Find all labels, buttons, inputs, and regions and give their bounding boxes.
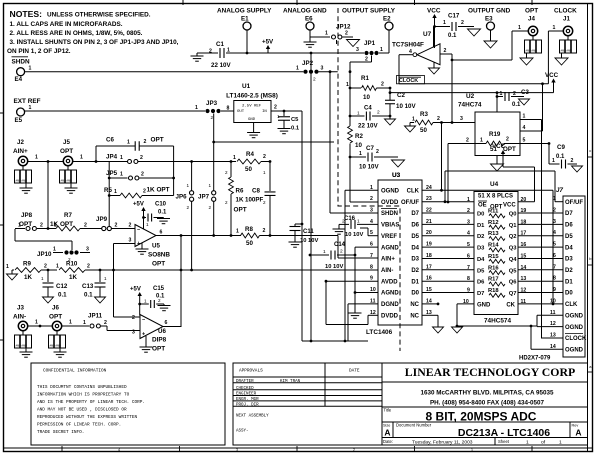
svg-text:4: 4	[467, 231, 470, 237]
svg-text:JP7: JP7	[198, 194, 210, 201]
svg-text:2: 2	[87, 264, 90, 270]
svg-text:OPT: OPT	[152, 346, 165, 353]
wire U4 Q2 to J7	[518, 235, 563, 237]
svg-text:U4: U4	[490, 181, 499, 188]
svg-text:D1: D1	[565, 279, 573, 285]
J6 shield	[49, 331, 66, 352]
svg-text:2: 2	[140, 155, 143, 161]
wire AIN+ riser	[338, 236, 378, 259]
svg-text:+5V: +5V	[130, 287, 141, 293]
svg-text:1: 1	[114, 189, 117, 195]
svg-text:R10: R10	[66, 261, 78, 268]
svg-text:DIP8: DIP8	[152, 337, 167, 344]
wire JP3 pin2 riser	[213, 114, 215, 191]
svg-text:JP4: JP4	[106, 154, 118, 161]
svg-text:C4: C4	[364, 106, 372, 112]
resistor R5	[104, 187, 174, 198]
svg-text:D0: D0	[565, 291, 573, 297]
svg-text:0.1: 0.1	[291, 126, 300, 132]
svg-text:2: 2	[513, 91, 516, 97]
svg-text:Q4: Q4	[509, 257, 518, 263]
wire U5 output	[156, 235, 241, 237]
svg-text:2: 2	[209, 49, 212, 55]
svg-text:2: 2	[144, 139, 147, 145]
svg-text:D3: D3	[477, 246, 485, 252]
ground C11	[289, 242, 302, 247]
wire vref rail riser	[301, 111, 303, 341]
capacitor C15	[140, 286, 165, 308]
wire U4 Q0 to J7	[518, 212, 563, 214]
svg-text:R11: R11	[488, 209, 499, 215]
wire J1 to U2	[548, 31, 563, 84]
svg-text:DGND: DGND	[381, 302, 399, 308]
svg-text:1: 1	[120, 172, 123, 178]
svg-text:R16: R16	[488, 265, 499, 271]
ground AGND	[349, 313, 362, 318]
svg-text:+5V: +5V	[262, 39, 274, 46]
svg-text:2: 2	[104, 320, 107, 326]
svg-text:D5: D5	[477, 268, 485, 274]
ground U7	[429, 62, 440, 74]
svg-text:CLOCK: CLOCK	[565, 336, 587, 342]
regulator U1 LT1460	[226, 83, 278, 132]
resistor R7	[50, 212, 102, 231]
svg-text:2: 2	[40, 223, 43, 229]
svg-text:8 BIT, 20MSPS ADC: 8 BIT, 20MSPS ADC	[426, 410, 537, 424]
svg-text:2: 2	[263, 154, 266, 160]
svg-text:10 10V: 10 10V	[359, 164, 379, 171]
svg-text:1: 1	[296, 66, 299, 72]
junction C3	[496, 95, 499, 98]
op-amp U5	[129, 223, 171, 268]
svg-text:KIM TRAN: KIM TRAN	[280, 380, 301, 384]
svg-text:2: 2	[263, 200, 266, 205]
ground R3	[405, 126, 416, 132]
svg-text:REPRODUCED WITHOUT THE EXPRESS: REPRODUCED WITHOUT THE EXPRESS WRITTEN	[37, 415, 137, 420]
svg-text:2.5V REF: 2.5V REF	[242, 105, 262, 109]
svg-text:1: 1	[480, 138, 483, 144]
svg-text:R5: R5	[104, 187, 112, 194]
capacitor C11	[290, 223, 319, 244]
wire CLK row	[422, 190, 553, 303]
svg-text:IN: IN	[262, 110, 267, 114]
wire VREF row	[212, 141, 334, 144]
svg-text:9: 9	[467, 288, 470, 294]
svg-text:U7: U7	[423, 31, 432, 38]
wire R1 C2 riser	[389, 87, 392, 119]
svg-text:2: 2	[553, 208, 556, 214]
svg-text:1: 1	[195, 105, 198, 111]
wire U2 pin1	[520, 114, 542, 339]
junction R6 top	[230, 160, 233, 163]
ground NC	[433, 327, 444, 333]
jumper JP8	[15, 212, 56, 231]
svg-text:2: 2	[571, 158, 574, 164]
capacitor C8	[245, 162, 276, 236]
svg-text:PERMISSION OF LINEAR TECH. COR: PERMISSION OF LINEAR TECH. CORP.	[37, 423, 121, 428]
wire input row y326	[28, 325, 89, 327]
svg-text:AMP AMP: AMP AMP	[16, 345, 28, 348]
svg-text:C16: C16	[344, 216, 356, 222]
svg-text:AIN+: AIN+	[381, 257, 395, 263]
svg-text:D1: D1	[477, 223, 485, 229]
junction rail x311	[310, 52, 313, 55]
wire right riser x173	[173, 146, 175, 196]
junction JP8 R7	[47, 227, 50, 230]
svg-text:1: 1	[53, 247, 56, 253]
svg-text:OGND: OGND	[565, 314, 584, 320]
svg-text:2: 2	[84, 223, 87, 229]
connector J1 CLOCK	[553, 8, 578, 36]
junction E1 rail	[246, 52, 249, 55]
svg-text:1: 1	[553, 25, 556, 31]
wire AGND riser	[354, 255, 356, 313]
svg-text:JP11: JP11	[88, 313, 103, 320]
svg-text:OUT: OUT	[237, 110, 245, 114]
svg-text:D6: D6	[477, 280, 485, 286]
svg-text:CLK: CLK	[565, 302, 578, 308]
wire U4 Q5 to J7	[518, 269, 563, 271]
svg-text:3: 3	[467, 219, 470, 225]
svg-text:1: 1	[518, 25, 521, 31]
svg-text:10 10V: 10 10V	[345, 232, 364, 238]
resistor R6	[225, 162, 247, 236]
wire U2 top stub	[496, 93, 498, 112]
svg-text:6: 6	[553, 253, 556, 259]
svg-text:7: 7	[553, 264, 556, 270]
wire U2 pin4	[520, 125, 543, 131]
svg-text:AMP AMP: AMP AMP	[526, 50, 538, 53]
svg-text:U5: U5	[152, 243, 160, 250]
resistor R1	[346, 75, 390, 101]
svg-text:OPT: OPT	[234, 207, 247, 214]
svg-text:ASSY-: ASSY-	[236, 430, 249, 434]
svg-text:3: 3	[86, 247, 89, 253]
svg-text:R6: R6	[236, 188, 244, 195]
svg-text:J2: J2	[17, 139, 24, 146]
junction OGND 531	[530, 325, 533, 328]
ground C10	[157, 218, 170, 224]
svg-text:VBIAS: VBIAS	[381, 223, 399, 229]
svg-text:1: 1	[523, 114, 526, 120]
svg-text:CLOCK: CLOCK	[399, 78, 418, 84]
svg-text:C14: C14	[334, 242, 346, 248]
svg-text:DVDD: DVDD	[381, 314, 399, 320]
jumper JP5	[106, 170, 174, 180]
label CLOCK net	[397, 76, 425, 85]
svg-text:2: 2	[466, 138, 469, 144]
svg-text:1: 1	[6, 264, 9, 270]
svg-text:R13: R13	[488, 231, 499, 237]
wire U7 in riser	[451, 54, 453, 123]
capacitor C9	[549, 144, 577, 169]
svg-text:AIN+: AIN+	[13, 148, 28, 155]
J3 shield	[15, 331, 32, 352]
svg-text:8: 8	[553, 276, 556, 282]
connector J2 AIN+	[13, 139, 38, 166]
capacitor C3	[497, 89, 529, 108]
svg-text:1: 1	[187, 183, 190, 188]
svg-text:DRAFTER: DRAFTER	[236, 380, 254, 384]
svg-text:A: A	[575, 428, 581, 438]
svg-text:2: 2	[444, 48, 447, 54]
svg-text:3: 3	[356, 47, 359, 53]
svg-text:0.1: 0.1	[512, 102, 521, 108]
capacitor C6	[96, 137, 174, 151]
svg-text:OVDD: OVDD	[381, 200, 399, 206]
svg-text:1K: 1K	[24, 274, 32, 281]
svg-text:JP8: JP8	[21, 212, 33, 219]
svg-text:+: +	[137, 241, 140, 247]
svg-text:D4: D4	[411, 245, 419, 251]
svg-text:0.1: 0.1	[58, 292, 67, 299]
svg-text:c: c	[589, 148, 591, 153]
ic U4 74HC574	[463, 181, 526, 325]
ground J3 shield	[20, 352, 33, 357]
svg-text:+: +	[142, 332, 145, 338]
svg-text:2: 2	[342, 219, 345, 225]
svg-text:3: 3	[460, 116, 463, 122]
svg-text:HD2X7-079: HD2X7-079	[519, 356, 551, 362]
junction JP7 out	[212, 234, 215, 237]
svg-text:OPT: OPT	[49, 314, 62, 321]
wire U4 CK pin11	[518, 303, 563, 306]
wire J7 pin14 OGND	[531, 326, 563, 349]
wire OFUF row	[422, 201, 474, 203]
wire U4 Q6 to J7	[518, 280, 563, 282]
svg-text:OPT: OPT	[60, 148, 73, 155]
jumper JP1	[350, 40, 383, 63]
svg-text:C5: C5	[291, 117, 299, 123]
svg-text:1: 1	[263, 170, 266, 175]
ground C17	[468, 29, 481, 36]
svg-text:2: 2	[129, 223, 132, 229]
junction R9 R10	[47, 269, 50, 272]
svg-text:6: 6	[160, 230, 163, 236]
svg-text:AMP AMP: AMP AMP	[16, 180, 28, 183]
svg-text:100PF: 100PF	[245, 197, 263, 204]
svg-text:Sheet: Sheet	[498, 439, 510, 444]
wire U5 plus input	[114, 244, 136, 318]
terminal E2 OUTPUT SUPPLY	[342, 8, 396, 54]
svg-text:1: 1	[559, 440, 562, 446]
wire +5V rail y53	[197, 52, 389, 54]
ground C13	[95, 297, 106, 303]
junction AVDD	[325, 280, 328, 283]
op-amp U6	[132, 315, 168, 353]
svg-text:10: 10	[363, 94, 370, 101]
inverter U7 TC7SH04F	[392, 31, 447, 65]
terminal E1 ANALOG SUPPLY	[217, 8, 272, 54]
wire U4 VCC pin20	[518, 201, 535, 203]
junction R1 feed	[349, 87, 352, 90]
svg-text:1: 1	[359, 151, 362, 157]
wire U4 Q1 to J7	[518, 223, 563, 225]
svg-text:OUTPUT GND: OUTPUT GND	[468, 8, 511, 15]
svg-text:LINEAR TECHNOLOGY CORP: LINEAR TECHNOLOGY CORP	[405, 365, 575, 379]
svg-text:AVDD: AVDD	[381, 279, 398, 285]
svg-text:2: 2	[377, 110, 380, 116]
svg-text:2: 2	[313, 77, 316, 83]
junction JP5 L	[108, 177, 111, 180]
resistor R8	[236, 226, 338, 247]
svg-text:8: 8	[370, 264, 373, 270]
J1 shield	[560, 36, 577, 58]
notes text block	[7, 9, 179, 55]
ground J6 shield	[54, 352, 67, 357]
ground U5	[136, 243, 149, 254]
wire U2 pin5	[520, 138, 550, 165]
svg-text:C7: C7	[366, 145, 374, 152]
svg-text:R1: R1	[361, 75, 369, 82]
ground JP12	[347, 40, 360, 47]
svg-text:R15: R15	[488, 254, 499, 260]
svg-text:D7: D7	[411, 211, 419, 217]
ground C2	[385, 119, 396, 125]
wire U3 pin11 DGND	[348, 304, 378, 341]
svg-text:NEXT ASSEMBLY: NEXT ASSEMBLY	[236, 415, 269, 419]
resistor R3	[410, 111, 475, 134]
svg-text:D5: D5	[411, 234, 419, 240]
capacitor C17	[435, 13, 475, 40]
junction C14 AGND	[354, 254, 357, 257]
wire U4 Q3 to J7	[518, 246, 563, 248]
junction AGND pin10	[354, 291, 357, 294]
svg-text:2: 2	[44, 264, 47, 270]
junction C8 bot	[269, 234, 272, 237]
svg-text:R12: R12	[488, 220, 499, 226]
ground J5 shield	[65, 188, 78, 193]
svg-text:3: 3	[321, 66, 324, 72]
power +5V U6	[130, 287, 142, 300]
junction bottom rail 311	[310, 340, 313, 343]
resistor R9	[6, 261, 57, 282]
svg-text:D6: D6	[411, 223, 419, 229]
ground U4	[452, 327, 463, 333]
svg-text:2: 2	[187, 205, 190, 210]
svg-text:D5: D5	[565, 234, 573, 240]
svg-text:1: 1	[83, 320, 86, 326]
wire U3 D1 to U4	[422, 280, 474, 282]
wire U5 out riser	[180, 234, 183, 327]
svg-text:1: 1	[69, 320, 72, 326]
svg-text:1: 1	[80, 155, 83, 161]
svg-text:OPT: OPT	[152, 261, 165, 268]
svg-text:Q1: Q1	[509, 223, 518, 229]
wire U3 pin12 DVDD	[326, 315, 378, 324]
svg-text:AND MAY NOT BE USED , DISCLOSE: AND MAY NOT BE USED , DISCLOSED OR	[37, 408, 127, 413]
svg-text:1: 1	[227, 48, 230, 54]
svg-text:TC7SH04F: TC7SH04F	[392, 42, 424, 49]
wire U6 minus input	[114, 316, 141, 318]
wire U3 pin10 AGND	[355, 292, 378, 294]
svg-text:2: 2	[353, 448, 355, 452]
svg-text:22 10V: 22 10V	[211, 62, 231, 69]
svg-text:JP9: JP9	[96, 216, 108, 223]
svg-text:C17: C17	[448, 13, 460, 20]
ground C16	[333, 229, 346, 234]
svg-text:GND: GND	[248, 118, 256, 122]
svg-text:Date:: Date:	[383, 439, 393, 444]
wire SHDN riser	[330, 72, 378, 213]
svg-text:1: 1	[357, 219, 360, 225]
terminal E4 SHDN	[12, 57, 32, 83]
svg-text:VCC: VCC	[545, 72, 559, 79]
svg-text:50: 50	[246, 240, 253, 247]
svg-text:OPT: OPT	[19, 221, 32, 228]
ground C1	[191, 53, 204, 61]
svg-text:Q0: Q0	[509, 212, 517, 218]
svg-text:50: 50	[245, 166, 252, 173]
svg-text:SHDN: SHDN	[381, 211, 398, 217]
svg-text:2: 2	[225, 200, 228, 205]
svg-text:2: 2	[370, 196, 373, 202]
svg-text:1: 1	[104, 276, 107, 281]
wire U4 GND pin10	[457, 304, 474, 327]
svg-text:TRADE SECRET INFO.: TRADE SECRET INFO.	[37, 430, 84, 435]
svg-text:3: 3	[129, 238, 132, 244]
ic U2 74HC74	[458, 93, 520, 156]
resistor R4	[233, 151, 270, 173]
svg-text:APPROVALS: APPROVALS	[239, 369, 263, 374]
svg-text:AMP AMP: AMP AMP	[50, 345, 62, 348]
svg-text:Document Number: Document Number	[396, 423, 432, 428]
svg-text:VCC: VCC	[427, 8, 441, 15]
svg-text:D3: D3	[411, 257, 419, 263]
wire CLOCK rail	[399, 82, 548, 131]
svg-text:10 10V: 10 10V	[325, 264, 344, 270]
svg-text:5: 5	[553, 242, 556, 248]
junction U2 top	[496, 91, 499, 94]
svg-text:1: 1	[35, 320, 38, 326]
svg-text:INFORMATION WHICH IS PROPRIETA: INFORMATION WHICH IS PROPRIETARY TO	[37, 393, 130, 398]
svg-text:D1: D1	[411, 279, 419, 285]
svg-text:10 10V: 10 10V	[300, 238, 319, 244]
svg-text:J7: J7	[556, 187, 563, 194]
capacitor C12	[41, 270, 68, 299]
svg-text:51: 51	[490, 146, 497, 153]
svg-text:JP3: JP3	[206, 100, 218, 107]
svg-text:2: 2	[274, 105, 277, 111]
capacitor C2	[385, 92, 416, 110]
svg-text:R2: R2	[355, 133, 363, 140]
svg-text:2: 2	[381, 82, 384, 88]
svg-text:2: 2	[365, 57, 368, 63]
ground E6	[304, 42, 317, 47]
svg-text:+5V: +5V	[133, 202, 144, 208]
wire J7 pin13 CLOCK	[542, 337, 564, 339]
svg-text:D7: D7	[477, 291, 484, 297]
svg-text:1: 1	[500, 91, 503, 97]
svg-text:D0: D0	[477, 212, 484, 218]
jumper JP3	[195, 100, 234, 120]
svg-text:PH. (408) 954-8400 FAX (408): PH. (408) 954-8400 FAX (408) 434-0507	[430, 400, 545, 407]
resistor R19	[475, 131, 520, 153]
svg-text:1: 1	[233, 155, 236, 161]
svg-text:CHECKED: CHECKED	[236, 387, 254, 391]
ground C5	[278, 129, 291, 134]
svg-text:1: 1	[209, 183, 212, 188]
svg-text:1: 1	[146, 222, 149, 227]
svg-text:2: 2	[467, 208, 470, 214]
svg-text:OPT: OPT	[151, 137, 164, 144]
svg-text:ENGINEER: ENGINEER	[236, 393, 257, 397]
ground C7	[392, 160, 405, 167]
wire OGND rail	[457, 325, 537, 327]
wire U6 vplus	[138, 299, 141, 316]
svg-text:OF/UF: OF/UF	[401, 200, 419, 206]
svg-text:D2: D2	[411, 268, 419, 274]
